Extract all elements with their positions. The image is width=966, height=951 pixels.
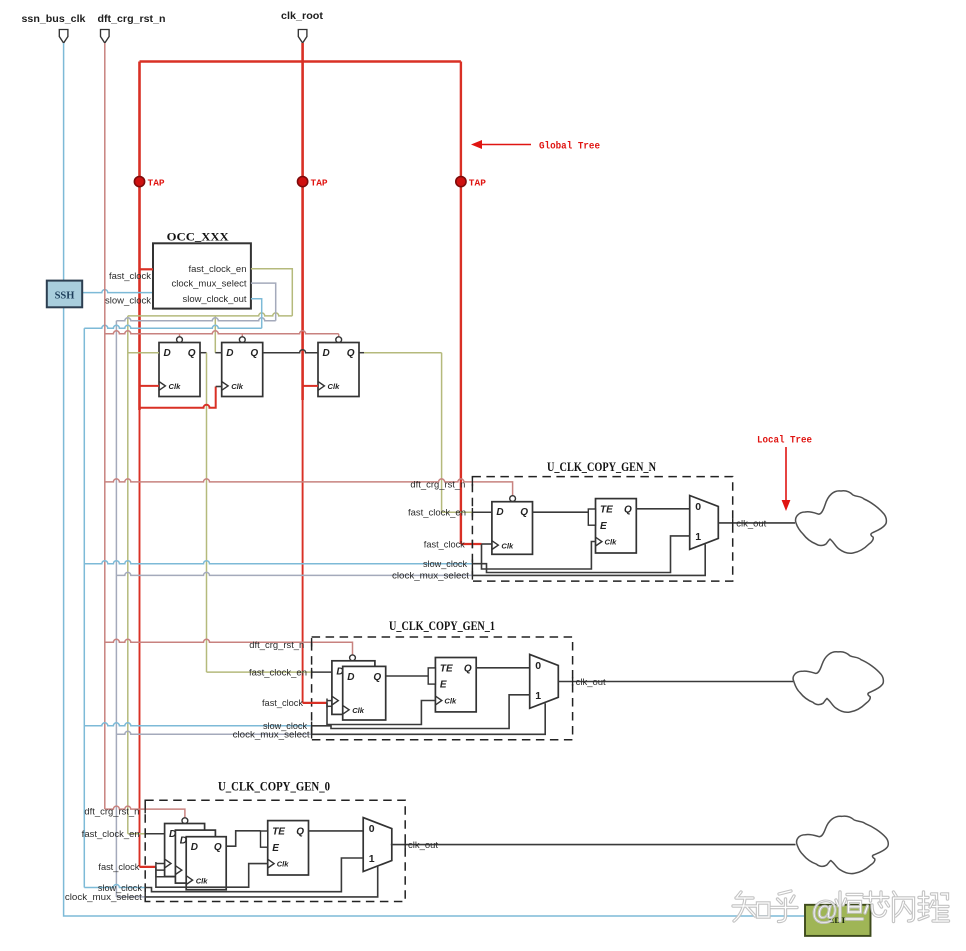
flip-flop sync DFF2 [222,337,263,397]
svg-text:clk_root: clk_root [281,11,324,22]
wire dft_crg_rst_n to sync DFF resets [105,331,339,337]
junction TAP1 [134,177,165,189]
wire GEN_N slow_clock to mux 1 [472,536,689,573]
instance SSH [47,281,82,308]
svg-text:Clk: Clk [169,382,182,391]
net label GEN_N slow_clock [423,559,472,569]
svg-text:clk_out: clk_out [408,840,439,850]
port pin dft_crg_rst_n [98,14,166,43]
pin label OCC slow_clock_out [183,294,248,304]
wire fast_clock to DFF3 Clk [303,385,318,387]
pin label OCC fast_clock input [109,271,152,281]
cloud local tree load GEN_0 [797,816,889,873]
svg-text:clock_mux_select: clock_mux_select [233,730,311,740]
wire slow_clock_out from OCC [84,299,261,888]
svg-text:clock_mux_select: clock_mux_select [172,279,248,289]
net label GEN_1 fast_clock [262,698,303,708]
wire fast_clock tree branch right [460,62,462,545]
svg-text:U_CLK_COPY_GEN_0: U_CLK_COPY_GEN_0 [218,780,330,794]
flip-flop GEN_0 DFF stack back [165,818,205,877]
wire clk_root trunk top [140,60,461,63]
wire fast_clock into GEN_N [461,543,492,545]
wire GEN_0 fast_clock to latch clk [156,864,268,888]
svg-text:Q: Q [373,672,381,683]
svg-text:clock_mux_select: clock_mux_select [392,571,470,581]
svg-text:TAP: TAP [148,177,165,188]
module U_CLK_COPY_GEN_0 dashed boundary [145,780,405,902]
module U_CLK_COPY_GEN_N dashed boundary [472,460,732,581]
svg-text:SSH: SSH [55,291,75,302]
wire GEN_0 slow_clock to mux 1 [145,858,363,892]
svg-text:@: @ [811,896,838,926]
latch GEN_1 clock gate [428,658,476,712]
annotation Global Tree arrow [471,140,600,153]
svg-text:Q: Q [624,504,632,515]
mux GEN_N [690,496,719,550]
net label GEN_1 clock_mux_select [233,730,312,740]
svg-text:fast_clock: fast_clock [424,539,465,549]
svg-text:fast_clock_en: fast_clock_en [249,667,307,677]
svg-text:dft_crg_rst_n: dft_crg_rst_n [98,14,166,25]
flip-flop GEN_1 DFF stack back [332,655,375,715]
wire fast_clock_en into GEN_0 [128,833,165,835]
svg-text:Clk: Clk [231,382,244,391]
wire fast_clock stub into OCC [140,268,154,270]
svg-text:1: 1 [695,531,701,543]
net label GEN_N clock_mux_select [392,571,472,581]
flip-flop GEN_0 DFF stack front [186,837,226,890]
flip-flop sync DFF3 [318,337,359,397]
annotation Local Tree arrow [757,435,812,512]
svg-text:clk_out: clk_out [736,518,767,528]
wire fast_clock into GEN_1 [303,699,343,708]
svg-text:Q: Q [464,663,472,674]
pin label OCC clock_mux_select [172,279,248,289]
svg-text:fast_clock: fast_clock [98,862,139,872]
wire dft_crg_rst_n into GEN_1 [105,639,353,655]
cloud local tree load GEN_1 [793,652,883,713]
flip-flop sync DFF1 [159,337,200,397]
svg-text:dft_crg_rst_n: dft_crg_rst_n [410,479,465,489]
wire dft_crg_rst_n into GEN_0 [105,806,185,818]
wire DFF1 Q to GEN_1 feed [200,353,207,672]
wire GEN_1 fast_clock to latch clk [327,701,435,725]
svg-text:D: D [191,842,198,853]
wire fast_clock_en tap to DFF2 D [214,316,216,353]
svg-text:TAP: TAP [311,177,328,188]
net label GEN_0 dft_crg_rst_n [84,805,145,817]
svg-text:Clk: Clk [328,382,341,391]
pin label OCC fast_clock_en [189,264,247,274]
svg-text:0: 0 [695,501,701,513]
wire GEN_0 clk_out [391,840,796,849]
wire ssn_bus_clk SSH to EDT bottom rail [64,307,804,916]
svg-text:TE: TE [272,826,285,837]
svg-text:Q: Q [347,348,355,359]
svg-text:clk_out: clk_out [576,677,607,687]
svg-text:D: D [164,348,171,359]
wire slow_clock into GEN_N [84,561,472,564]
wire clk_root pin drop [301,43,304,62]
wire fast_clock to DFF2 Clk [140,387,222,408]
net label GEN_1 clk_out [576,677,607,687]
svg-text:TAP: TAP [469,177,486,188]
wire slow_clock into GEN_1 [84,723,311,726]
wire GEN_1 clk_out [558,677,793,686]
svg-text:dft_crg_rst_n: dft_crg_rst_n [249,640,304,650]
wire GEN_0 DFF Q to latch [226,831,260,846]
svg-text:Q: Q [250,348,258,359]
instance EDT [805,905,871,936]
wire fast_clock tree branch left [138,62,141,867]
svg-text:Clk: Clk [501,541,514,550]
svg-text:slow_clock: slow_clock [423,559,468,569]
svg-text:clock_mux_select: clock_mux_select [65,892,143,902]
net label GEN_0 fast_clock [98,862,139,872]
pin label OCC slow_clock input [105,295,152,305]
svg-text:1: 1 [369,853,375,865]
net label GEN_N clk_out [736,518,767,528]
wire GEN_0 latch Q to mux 0 [309,830,364,832]
wire DFF2 Q to DFF3 D [263,350,318,353]
svg-text:D: D [323,348,330,359]
svg-text:Clk: Clk [196,876,209,885]
net label GEN_N dft_crg_rst_n [410,478,472,490]
junction TAP3 [456,177,486,189]
svg-text:TE: TE [600,504,613,515]
wire slow_clock into GEN_0 [84,885,145,888]
net label GEN_1 dft_crg_rst_n [249,638,311,650]
wire fast_clock_en into GEN_1 [207,671,332,673]
svg-text:D: D [496,507,503,518]
wire clock_mux_select into GEN_N [116,572,472,575]
svg-text:fast_clock: fast_clock [109,271,152,281]
svg-text:Clk: Clk [352,706,365,715]
svg-text:slow_clock: slow_clock [105,295,152,305]
wire GEN_1 DFF Q to latch [386,675,429,677]
net label GEN_0 clk_out [408,840,439,850]
svg-text:0: 0 [369,823,375,835]
wire GEN_N clock_mux_select to mux select [472,544,705,575]
wire GEN_N latch Q to mux 0 [636,508,689,510]
wire DFF3 Q to GEN_N feed [360,353,442,513]
instance OCC_XXX [153,230,251,309]
svg-text:ssn_bus_clk: ssn_bus_clk [22,14,86,25]
watermark zhihu text [733,891,949,926]
svg-text:U_CLK_COPY_GEN_N: U_CLK_COPY_GEN_N [547,460,656,474]
wire dft_crg_rst_n into GEN_N [105,479,513,496]
cloud local tree load GEN_N [796,491,887,553]
svg-text:fast_clock_en: fast_clock_en [82,829,140,839]
net label GEN_1 fast_clock_en [249,667,312,677]
wire fast_clock to DFF1 Clk [140,385,160,387]
svg-text:OCC_XXX: OCC_XXX [167,230,229,244]
wire DFF2 D stub [215,352,221,354]
svg-text:D: D [226,348,233,359]
wire GEN_1 latch Q to mux 0 [476,667,530,669]
wire GEN_1 clock_mux_select to mux select [312,703,546,734]
wire GEN_N DFF Q to latch [533,511,589,513]
wire clock_mux_select into GEN_0 [116,896,145,898]
net label GEN_0 slow_clock [98,883,145,893]
wire dft_crg_rst_n vertical [104,43,106,809]
port pin clk_root [281,11,324,43]
latch GEN_0 clock gate [261,821,309,875]
net label GEN_0 fast_clock_en [82,829,146,839]
wire fast_clock into GEN_0 [140,862,187,877]
svg-text:dft_crg_rst_n: dft_crg_rst_n [84,807,139,817]
svg-text:0: 0 [535,660,541,672]
wire fast_clock_en to DFF1 D [128,352,159,354]
wire clock_mux_select into GEN_1 [116,731,311,734]
wire fast_clock_en from OCC [128,269,292,834]
flip-flop GEN_0 DFF stack mid [175,830,215,883]
svg-text:Q: Q [296,826,304,837]
svg-text:fast_clock: fast_clock [262,698,303,708]
net label GEN_1 slow_clock [263,721,312,731]
module U_CLK_COPY_GEN_1 dashed boundary [312,619,573,740]
wire GEN_0 clock_mux_select to mux select [145,866,378,897]
svg-text:Clk: Clk [605,538,618,547]
wire clock_mux_select from OCC [116,283,275,897]
wire GEN_N fast_clock to latch clk [482,542,596,570]
svg-text:Q: Q [188,348,196,359]
svg-text:E: E [600,521,607,532]
wire fast_clock tree branch mid [301,62,304,703]
svg-text:Clk: Clk [277,860,290,869]
wire SSH output to OCC slow_clock [82,290,153,293]
svg-text:1: 1 [535,690,541,702]
wire ssn_bus_clk pin to SSH [63,43,65,281]
wire fast_clock_en into GEN_N [442,511,492,513]
port pin ssn_bus_clk [22,14,86,43]
flip-flop GEN_1 DFF stack front [343,666,386,720]
flip-flop GEN_N DFF [492,496,533,555]
svg-text:Q: Q [214,842,222,853]
svg-text:fast_clock_en: fast_clock_en [189,264,247,274]
wire GEN_1 slow_clock to mux 1 [312,695,530,729]
svg-text:fast_clock_en: fast_clock_en [408,508,466,518]
net label GEN_N fast_clock_en [408,508,472,518]
svg-text:U_CLK_COPY_GEN_1: U_CLK_COPY_GEN_1 [389,619,495,633]
svg-text:Q: Q [520,507,528,518]
svg-text:slow_clock_out: slow_clock_out [183,294,248,304]
junction TAP2 [298,177,328,189]
net label GEN_N fast_clock [424,539,473,549]
svg-text:E: E [272,843,279,854]
svg-text:D: D [347,672,354,683]
svg-text:Clk: Clk [444,697,457,706]
net label GEN_0 clock_mux_select [65,892,145,902]
mux GEN_0 [363,818,392,872]
mux GEN_1 [530,654,559,708]
svg-text:TE: TE [440,663,453,674]
wire GEN_N clk_out [718,519,795,528]
svg-text:Global Tree: Global Tree [539,141,600,153]
svg-text:E: E [440,680,447,691]
latch GEN_N clock gate [588,499,636,553]
svg-text:Local Tree: Local Tree [757,435,812,447]
